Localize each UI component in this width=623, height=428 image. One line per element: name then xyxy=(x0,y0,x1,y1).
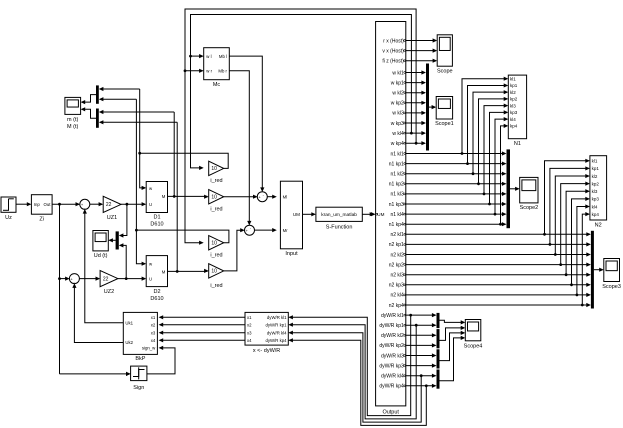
block Output xyxy=(376,22,406,416)
svg-text:kp4: kp4 xyxy=(510,124,518,129)
wire vertical g3 feed D2 w xyxy=(135,99,146,266)
svg-text:kl3: kl3 xyxy=(510,103,516,108)
svg-text:w kp2: w kp2 xyxy=(391,101,404,107)
wire UZ1 branch to Ud mux in1 xyxy=(119,204,127,237)
wire dyW/R kl4 to Mux4 xyxy=(406,374,437,378)
svg-text:M: M xyxy=(162,194,166,199)
wire Mux3 to Scope3 xyxy=(594,268,604,272)
wire Mux4d to Scope4 in4 xyxy=(440,336,466,381)
wire Mux4a to Scope4 in1 xyxy=(440,320,466,324)
svg-text:n1 kp3: n1 kp3 xyxy=(389,202,404,208)
svg-text:m (t): m (t) xyxy=(67,117,78,123)
wire dyW/R kp4 to Mux4 xyxy=(406,384,437,388)
svg-text:x1: x1 xyxy=(151,315,156,320)
mux Mm2 xyxy=(96,109,99,128)
svg-text:dyW/R kl3: dyW/R kl3 xyxy=(381,353,404,359)
svg-text:x4: x4 xyxy=(151,338,156,343)
wire G2 to S3 xyxy=(224,195,258,199)
svg-text:N1: N1 xyxy=(514,141,521,147)
svg-text:U: U xyxy=(149,202,152,207)
svg-text:UZ2: UZ2 xyxy=(104,289,114,295)
svg-text:w kp4: w kp4 xyxy=(391,141,404,147)
wire D1 M branch to Mm2 in1 xyxy=(99,110,174,114)
wire S4 to Input Mr xyxy=(254,228,277,232)
svg-text:w r: w r xyxy=(206,69,212,74)
block S-Function xyxy=(316,207,362,230)
svg-text:n1 kl3: n1 kl3 xyxy=(390,192,404,198)
svg-text:fi z (Host): fi z (Host) xyxy=(382,59,404,65)
svg-text:kp3: kp3 xyxy=(592,197,600,202)
wire v x (Host) to Scope xyxy=(406,49,437,53)
svg-text:w kp3: w kp3 xyxy=(391,121,404,127)
svg-text:i_red: i_red xyxy=(210,178,222,184)
wire n2 kp2 riser to N2 xyxy=(561,182,590,265)
wire n2 kl1 riser to N2 xyxy=(545,159,590,235)
svg-text:kran_um_matlab: kran_um_matlab xyxy=(321,212,357,218)
wire dyW/R kl4 wrap to x<-dyW/R xyxy=(288,331,421,423)
mux Mux4b xyxy=(437,329,440,348)
gain UZ1 xyxy=(103,196,121,221)
wire D1 M riser to Mm2 xyxy=(173,112,175,196)
svg-text:Sign: Sign xyxy=(133,385,144,391)
wire dyW/R kp1 wrap to x<-dyW/R xyxy=(288,323,416,419)
scope Scope xyxy=(437,35,453,75)
svg-text:UZ1: UZ1 xyxy=(107,215,117,221)
wire n1 kl4 to Mux2 xyxy=(406,212,507,216)
svg-text:Mc: Mc xyxy=(213,82,221,88)
svg-text:sign_w: sign_w xyxy=(142,346,156,351)
wire w kl3 to Mux1 xyxy=(406,111,426,115)
wire n2 kp4 to Mux3 xyxy=(406,303,591,307)
svg-text:i_red: i_red xyxy=(210,253,222,259)
svg-text:22: 22 xyxy=(106,202,112,208)
svg-text:kp3: kp3 xyxy=(510,110,518,115)
svg-text:w kl1: w kl1 xyxy=(392,70,404,76)
wire Mux4b to Scope4 in2 xyxy=(440,326,466,341)
block Sign xyxy=(131,366,147,391)
wire w kp1 to Mux1 xyxy=(406,81,426,85)
svg-text:kp2: kp2 xyxy=(592,181,600,186)
mux Ud xyxy=(116,231,119,249)
svg-text:M: M xyxy=(162,269,166,274)
wire x1 to BkP xyxy=(159,315,245,319)
wire Zi to sum S1 xyxy=(52,202,80,206)
gain UZ2 xyxy=(100,271,118,296)
svg-text:n1 kp2: n1 kp2 xyxy=(389,182,404,188)
svg-text:dyW/R kp4: dyW/R kp4 xyxy=(379,384,404,390)
wire w kp4 to Mux1 xyxy=(406,141,426,145)
wire n1 kl3 to Mux2 xyxy=(406,192,507,196)
svg-text:r x (Host): r x (Host) xyxy=(383,38,404,44)
sum S3 xyxy=(257,192,267,202)
svg-text:n1 kp1: n1 kp1 xyxy=(389,161,404,167)
wire UZ1 to D1 U xyxy=(121,202,146,206)
svg-text:Input: Input xyxy=(285,251,298,257)
svg-text:n2 kp4: n2 kp4 xyxy=(389,303,404,309)
svg-text:Ud (t): Ud (t) xyxy=(94,253,108,259)
block N2 xyxy=(590,156,607,229)
wire vertical g1 feed D1 w xyxy=(138,89,146,190)
wire Mb r to sum S4 xyxy=(229,71,251,226)
wire Input UM to S-Function xyxy=(303,212,316,216)
block N1 xyxy=(508,75,526,147)
wire n2 kp1 riser to N2 xyxy=(550,166,590,244)
scope Scope3 xyxy=(602,259,621,291)
svg-text:Scope2: Scope2 xyxy=(520,205,539,211)
wire r x (Host) to Scope xyxy=(406,38,437,42)
wire n2 kp2 to Mux3 xyxy=(406,263,591,267)
svg-text:n2 kp3: n2 kp3 xyxy=(389,283,404,289)
svg-text:w kl3: w kl3 xyxy=(392,111,404,117)
wire Mc w r stub xyxy=(185,69,204,73)
wire n1 kp1 riser to N1 xyxy=(468,83,509,163)
mux Mux1 xyxy=(426,64,429,151)
svg-text:kp1: kp1 xyxy=(592,166,600,171)
wire Ud mux out to Ud display xyxy=(108,238,115,242)
wire Uz to Zi xyxy=(16,202,31,206)
scope Scope4 xyxy=(464,320,483,350)
wire dyW/R kl1 wrap to x<-dyW/R xyxy=(288,315,410,416)
wire Mux4c to Scope4 in3 xyxy=(440,331,466,361)
wire D2 M riser to Mm2 xyxy=(176,122,178,271)
svg-text:UM: UM xyxy=(377,212,384,217)
block D1 xyxy=(146,182,167,228)
wire w kp3 to Mux1 xyxy=(406,121,426,125)
wire n1 kp3 riser to N1 xyxy=(490,110,509,204)
wire w kl1 to Mux1 xyxy=(406,70,426,74)
svg-text:dyW/R kl2: dyW/R kl2 xyxy=(381,333,404,339)
wire n1 kl2 riser to N1 xyxy=(473,90,508,174)
svg-text:w kl2: w kl2 xyxy=(392,91,404,97)
svg-text:n1 kp4: n1 kp4 xyxy=(389,222,404,228)
wire n1 kl3 riser to N1 xyxy=(484,104,508,194)
svg-text:Mb l: Mb l xyxy=(219,54,227,59)
svg-text:Inp: Inp xyxy=(34,202,41,207)
mux Mux4a xyxy=(437,313,440,328)
wire n1 kl4 riser to N1 xyxy=(495,117,508,214)
wire n1 kp4 riser to N1 xyxy=(501,124,509,224)
svg-text:kl4: kl4 xyxy=(592,204,598,209)
svg-text:kl2: kl2 xyxy=(592,174,598,179)
svg-text:n2 kl2: n2 kl2 xyxy=(390,252,404,258)
svg-text:Output: Output xyxy=(382,410,399,416)
svg-text:M (t): M (t) xyxy=(67,124,78,130)
wire n1 kl1 to Mux2 xyxy=(406,151,507,155)
svg-text:x3: x3 xyxy=(151,330,156,335)
svg-text:Uz: Uz xyxy=(5,215,12,221)
wire Zi branch to Sign xyxy=(60,372,131,376)
gain G4 i_red xyxy=(209,264,224,289)
scope Scope2 xyxy=(520,177,539,211)
gain G3 i_red xyxy=(209,236,224,259)
svg-text:dyW/R kp4: dyW/R kp4 xyxy=(265,338,287,343)
sum S4 xyxy=(245,225,255,235)
wire n2 kp1 to Mux3 xyxy=(406,242,591,246)
svg-text:D610: D610 xyxy=(150,222,163,228)
scope Scope1 xyxy=(435,97,454,128)
wire Uk1 to S1 xyxy=(83,209,124,323)
wire Sign to BkP sign_w xyxy=(147,346,175,374)
wire UZ2 to D2 U xyxy=(118,277,146,281)
wire S3 to Input Ml xyxy=(267,195,277,199)
svg-text:dyW/R kl1: dyW/R kl1 xyxy=(267,315,287,320)
svg-text:x4: x4 xyxy=(247,338,252,343)
wire Sign in arrow xyxy=(126,372,131,376)
wire W1 w kl4 over top to Mc w l and g1 xyxy=(189,15,413,171)
block BkP xyxy=(123,312,157,361)
wire Mb l to sum S3 xyxy=(229,56,264,192)
wire n2 kl2 riser to N2 xyxy=(555,174,590,255)
svg-text:n1 kl2: n1 kl2 xyxy=(390,172,404,178)
wire n2 kl2 to Mux3 xyxy=(406,252,591,256)
wire W2 w kp4 over top to Mc w r and g3 xyxy=(184,9,418,245)
mux Mux4d xyxy=(437,370,440,389)
svg-text:Scope1: Scope1 xyxy=(435,121,454,127)
wire n1 kl2 to Mux2 xyxy=(406,172,507,176)
wire G3 out loop to left xyxy=(136,230,229,243)
svg-text:U: U xyxy=(149,276,152,281)
svg-text:w l: w l xyxy=(206,54,211,59)
svg-text:dyW/R kl1: dyW/R kl1 xyxy=(381,313,404,319)
wire n1 kl1 riser to N1 xyxy=(462,77,508,154)
wire n2 kl3 to Mux3 xyxy=(406,273,591,277)
wire w kp2 to Mux1 xyxy=(406,101,426,105)
svg-text:kl1: kl1 xyxy=(510,77,516,82)
svg-text:N2: N2 xyxy=(595,222,602,228)
wire Mm1 out to scope xyxy=(81,95,96,105)
svg-text:10: 10 xyxy=(211,241,217,247)
svg-text:n1 kl1: n1 kl1 xyxy=(390,151,404,157)
block Input xyxy=(280,181,302,257)
wire dyW/R kp2 to Mux4 xyxy=(406,343,437,347)
svg-text:Ml: Ml xyxy=(283,195,288,200)
svg-text:n2 kp1: n2 kp1 xyxy=(389,242,404,248)
svg-text:w kp1: w kp1 xyxy=(391,80,404,86)
svg-text:Uk1: Uk1 xyxy=(125,320,133,325)
block x<-dyW/R xyxy=(245,312,288,353)
scope m(t) M(t) xyxy=(65,97,81,130)
svg-text:UM: UM xyxy=(293,212,300,217)
svg-text:Zi: Zi xyxy=(39,217,44,223)
wire n1 kp4 to Mux2 xyxy=(406,222,507,226)
wire x3 to BkP xyxy=(159,331,245,335)
wire dyW/R kp1 to Mux4 xyxy=(406,323,437,327)
wire n2 kp4 riser to N2 xyxy=(582,212,590,305)
svg-text:n2 kp2: n2 kp2 xyxy=(389,262,404,268)
wire Mm2 out to scope xyxy=(81,107,96,118)
svg-text:Out: Out xyxy=(44,202,52,207)
wire S-Function to Output UM xyxy=(362,212,374,216)
wire n2 kl4 to Mux3 xyxy=(406,293,591,297)
wire dyW/R kp4 wrap to x<-dyW/R xyxy=(288,338,426,425)
wire G1 out loop to left xyxy=(140,153,229,168)
wire w kl4 to Mux1 xyxy=(406,131,426,135)
svg-text:kl2: kl2 xyxy=(510,90,516,95)
block D2 xyxy=(146,256,167,302)
svg-text:v x (Host): v x (Host) xyxy=(382,48,404,54)
gain G2 i_red xyxy=(209,190,224,213)
svg-text:w kl4: w kl4 xyxy=(392,131,404,137)
svg-text:22: 22 xyxy=(103,276,109,282)
svg-text:D2: D2 xyxy=(153,289,160,295)
svg-text:dyW/R kp1: dyW/R kp1 xyxy=(379,323,404,329)
wire dyW/R kl3 to Mux4 xyxy=(406,353,437,357)
wire n2 kp3 to Mux3 xyxy=(406,283,591,287)
svg-text:i_red: i_red xyxy=(210,283,222,289)
svg-text:S-Function: S-Function xyxy=(326,225,353,231)
svg-text:dyW/R kl4: dyW/R kl4 xyxy=(381,374,404,380)
wire fi z (Host) to Scope xyxy=(406,59,437,63)
wire Uk2 to S2 xyxy=(72,283,123,342)
block Mc xyxy=(204,48,230,88)
wire Mux1 to Scope1 xyxy=(429,105,436,109)
wire n1 kp3 to Mux2 xyxy=(406,202,507,206)
wire dyW/R kl2 to Mux4 xyxy=(406,333,437,337)
svg-text:i_red: i_red xyxy=(210,207,222,213)
gain G1 i_red xyxy=(209,161,224,184)
wire D2 M to G4 xyxy=(168,269,209,273)
svg-text:dyW/R kp2: dyW/R kp2 xyxy=(379,343,404,349)
svg-text:Uk2: Uk2 xyxy=(125,340,133,345)
svg-text:x3: x3 xyxy=(247,330,252,335)
svg-text:Mr: Mr xyxy=(283,228,289,233)
wire g1 branch to Mm1 in1 xyxy=(99,87,140,91)
scope Ud(t) xyxy=(93,231,108,260)
wire w kl2 to Mux1 xyxy=(406,91,426,95)
wire dyW/R kl1 to Mux4 xyxy=(406,313,437,317)
svg-text:Scope3: Scope3 xyxy=(602,284,621,290)
svg-text:Mb r: Mb r xyxy=(218,69,227,74)
wire UM into Output xyxy=(371,212,376,216)
svg-text:kl1: kl1 xyxy=(592,159,598,164)
wire UZ2 branch to Ud mux in2 xyxy=(119,243,126,278)
svg-text:n1 kl4: n1 kl4 xyxy=(390,212,404,218)
svg-text:10: 10 xyxy=(211,166,217,172)
wire n2 kl3 riser to N2 xyxy=(566,189,590,275)
svg-text:n2 kl3: n2 kl3 xyxy=(390,273,404,279)
source Uz xyxy=(1,197,16,221)
wire Mux2 to Scope2 xyxy=(510,187,520,191)
wire D2 M branch to Mm2 in2 xyxy=(99,120,177,124)
wire n1 kp2 riser to N1 xyxy=(479,97,509,184)
svg-text:dyW/R kl4: dyW/R kl4 xyxy=(267,330,287,335)
svg-text:D1: D1 xyxy=(153,215,160,221)
svg-text:kp1: kp1 xyxy=(510,83,518,88)
wire Mc w l stub xyxy=(191,54,204,58)
wire G4 to S4 left xyxy=(224,228,245,271)
svg-text:x1: x1 xyxy=(247,315,252,320)
svg-text:kl3: kl3 xyxy=(592,189,598,194)
wire n1 kp2 to Mux2 xyxy=(406,182,507,186)
wire n1 kp1 to Mux2 xyxy=(406,162,507,166)
block Zi xyxy=(31,195,52,223)
svg-text:D610: D610 xyxy=(150,296,163,302)
wire S2 to UZ2 xyxy=(79,277,100,281)
svg-text:kp2: kp2 xyxy=(510,97,518,102)
mux Mux4c xyxy=(437,349,440,368)
svg-text:10: 10 xyxy=(211,195,217,201)
wire g3 branch to Mm1 in2 xyxy=(99,97,137,101)
wire Zi branch to S2 xyxy=(60,277,70,281)
svg-text:10: 10 xyxy=(211,269,217,275)
wire S1 to UZ1 xyxy=(90,202,104,206)
svg-text:Scope: Scope xyxy=(437,69,453,75)
svg-text:x <- dyW/R: x <- dyW/R xyxy=(253,348,280,354)
svg-text:kl4: kl4 xyxy=(510,117,516,122)
svg-text:dyW/R kp3: dyW/R kp3 xyxy=(379,363,404,369)
wire n2 kl1 to Mux3 xyxy=(406,232,591,236)
node Zi branch down xyxy=(58,204,61,374)
wire x2 to BkP xyxy=(159,323,245,327)
mux Mux2 xyxy=(507,149,511,228)
wire n2 kp3 riser to N2 xyxy=(572,197,590,285)
svg-text:n2 kl1: n2 kl1 xyxy=(390,232,404,238)
mux Mm1 xyxy=(96,85,99,103)
sum S1 xyxy=(80,199,90,210)
svg-text:n2 kl4: n2 kl4 xyxy=(390,293,404,299)
wire D1 M to G2 xyxy=(168,195,209,199)
wire n2 kl4 riser to N2 xyxy=(577,204,590,294)
wire dyW/R kp3 to Mux4 xyxy=(406,364,437,368)
svg-text:Scope4: Scope4 xyxy=(464,343,483,349)
mux Mux3 xyxy=(591,231,594,309)
svg-text:x2: x2 xyxy=(247,322,252,327)
svg-text:x2: x2 xyxy=(151,322,156,327)
svg-text:BkP: BkP xyxy=(135,356,145,362)
svg-text:dyW/R kp1: dyW/R kp1 xyxy=(265,322,287,327)
svg-text:kp4: kp4 xyxy=(592,212,600,217)
wire x4 to BkP xyxy=(159,338,245,342)
sum S2 xyxy=(69,274,79,285)
